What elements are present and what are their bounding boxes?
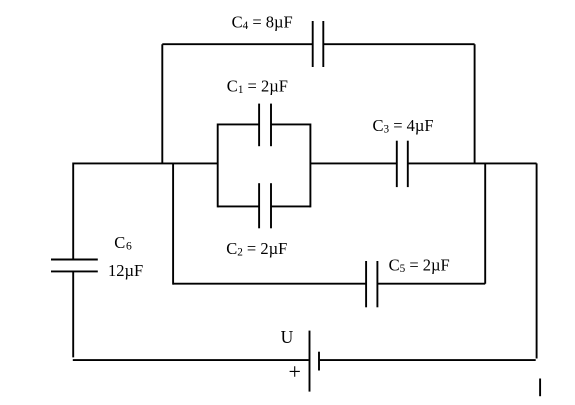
capacitor C4 left plate	[312, 21, 314, 67]
node box left edge	[217, 124, 219, 208]
wire top right (C4 to right branch)	[324, 43, 475, 45]
wire bottom right segment (battery to right corner)	[320, 359, 536, 361]
capacitor C2 left plate	[258, 183, 260, 228]
svg-text:U: U	[281, 327, 294, 347]
capacitor C6 bottom plate	[51, 270, 98, 272]
capacitor C5 right plate	[376, 261, 378, 307]
capacitor C6 top plate	[51, 259, 98, 261]
capacitor C1 right plate	[270, 104, 272, 147]
capacitor C2 right plate	[270, 183, 272, 228]
capacitor C4 right plate	[322, 21, 324, 67]
wire top left (node between C6/C1-loop and C4)	[162, 43, 312, 45]
wire vertical left side of C5 loop	[172, 163, 174, 284]
wire bottom left segment (to battery)	[73, 359, 309, 361]
battery U short plate	[318, 352, 320, 371]
wire main bus right segment (C3 to right corner)	[408, 162, 536, 164]
text cursor mark bottom right	[539, 379, 541, 397]
svg-text:C3 = 4µF: C3 = 4µF	[373, 116, 434, 136]
node box bottom edge left part	[218, 205, 259, 207]
svg-text:C5 = 2µF: C5 = 2µF	[389, 255, 450, 275]
svg-text:+: +	[289, 359, 301, 384]
node box right edge	[309, 124, 311, 208]
capacitor C3 right plate	[407, 141, 409, 187]
wire left outer vertical upper part (corner to C6)	[72, 163, 74, 260]
svg-text:C2 = 2µF: C2 = 2µF	[226, 239, 287, 259]
capacitor C3 left plate	[396, 141, 398, 187]
wire vertical from top wire down to main bus (left)	[161, 44, 163, 164]
wire vertical right side of C5 loop	[484, 163, 486, 283]
svg-text:C1 = 2µF: C1 = 2µF	[227, 76, 288, 96]
capacitor C1 left plate	[258, 104, 260, 147]
wire right outer vertical	[536, 163, 538, 358]
node box for C1/C2 parallel combination: top edge left part	[218, 123, 259, 125]
wire main bus middle segment (box to C3)	[310, 162, 396, 164]
battery U long plate	[309, 331, 311, 392]
wire left outer vertical lower part (C6 to bottom)	[72, 271, 74, 357]
svg-text:C4 = 8µF: C4 = 8µF	[232, 13, 293, 32]
wire vertical from top wire down to main bus (right)	[474, 44, 476, 164]
wire C5 branch left segment	[173, 283, 365, 285]
node box top edge right part	[272, 123, 311, 125]
svg-text:12µF: 12µF	[108, 261, 143, 280]
wire main bus left segment	[73, 162, 217, 164]
capacitor C5 left plate	[365, 261, 367, 307]
node box bottom edge right part	[272, 205, 311, 207]
wire C5 branch right segment	[378, 283, 485, 285]
